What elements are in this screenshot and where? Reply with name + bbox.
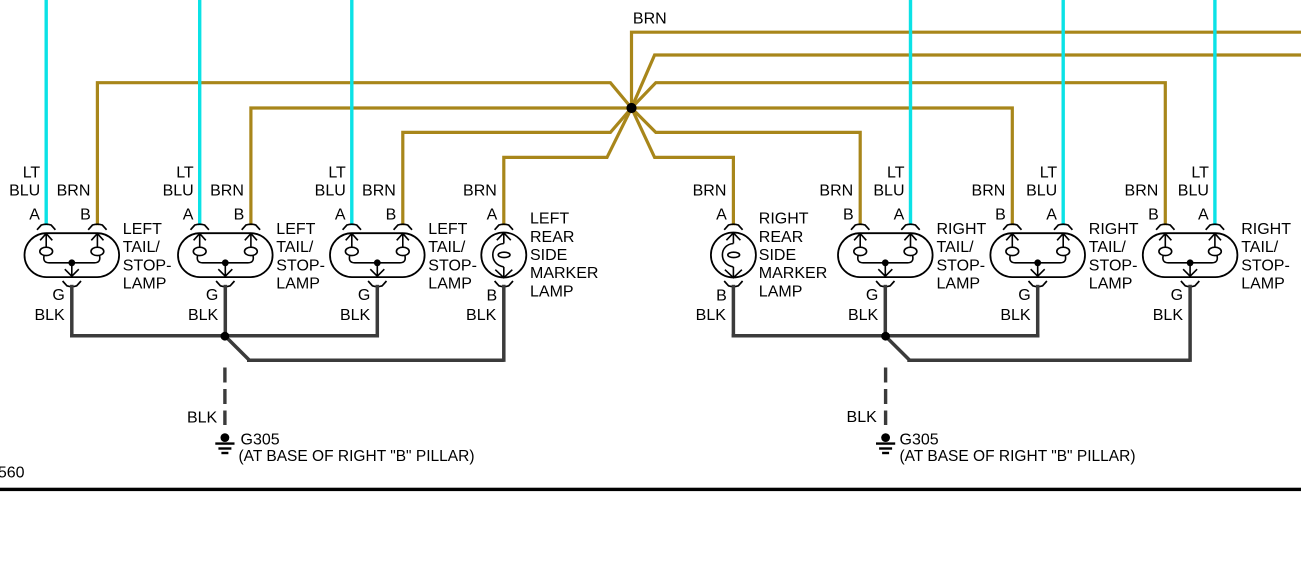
wire BLK from pin G of left tail lamp 3 <box>376 285 380 338</box>
label block right tail/stop lamp 1 <box>937 221 987 292</box>
dashed BLK wire to ground G305 right <box>884 368 887 426</box>
label block right tail/stop lamp 2 <box>1089 221 1139 292</box>
svg-text:BLK: BLK <box>187 410 218 427</box>
svg-text:BRN: BRN <box>819 183 853 200</box>
svg-text:BRN: BRN <box>362 183 396 200</box>
svg-text:REAR: REAR <box>530 229 574 246</box>
wire LT BLU vertical #4 <box>909 0 912 225</box>
separator rule at page bottom <box>0 488 1301 491</box>
splice junction node of BRN wires <box>626 103 636 113</box>
svg-text:BLU: BLU <box>1178 183 1209 200</box>
wire BRN to pin A of right rear side marker lamp <box>632 108 734 225</box>
label block right rear side marker lamp <box>759 211 827 301</box>
wire BRN to pin B of right tail lamp #2 <box>632 108 1013 225</box>
wire BLK from pin B of left rear side marker lamp <box>502 285 506 362</box>
wire BLK ground bus left <box>70 334 379 338</box>
svg-text:BRN: BRN <box>1125 183 1159 200</box>
svg-text:B: B <box>234 206 245 223</box>
svg-text:(AT BASE OF RIGHT "B" PILLAR): (AT BASE OF RIGHT "B" PILLAR) <box>900 448 1136 465</box>
svg-text:BLK: BLK <box>34 307 65 324</box>
bulb filament inside right rear side marker lamp <box>722 233 742 278</box>
label block left tail/stop lamp 3 <box>428 221 477 292</box>
svg-text:BLK: BLK <box>848 307 879 324</box>
svg-text:LT: LT <box>887 164 905 181</box>
svg-text:LT: LT <box>1040 164 1058 181</box>
svg-text:RIGHT: RIGHT <box>937 221 987 238</box>
svg-text:G305: G305 <box>241 431 280 448</box>
svg-text:G: G <box>206 287 218 304</box>
svg-text:BLK: BLK <box>696 307 727 324</box>
wire color label LT BLU at pin A of right tail/stop lamp 2 <box>1026 164 1057 199</box>
svg-text:BLU: BLU <box>9 183 40 200</box>
svg-text:G: G <box>1018 287 1030 304</box>
connector shell right tail/stop lamp 1 <box>838 224 933 286</box>
svg-text:RIGHT: RIGHT <box>759 211 809 228</box>
svg-text:A: A <box>1046 206 1057 223</box>
wire color label LT BLU at pin A of right tail/stop lamp 1 <box>873 164 904 199</box>
svg-text:TAIL/: TAIL/ <box>937 239 975 256</box>
bulb filaments inside right tail/stop lamp 1 <box>854 233 917 276</box>
wire BLK from pin G of right tail lamp 2 <box>1036 285 1040 338</box>
wire BRN to pin A of left rear side marker lamp <box>504 108 632 225</box>
svg-text:BLK: BLK <box>1153 307 1184 324</box>
connector shell right rear side marker lamp <box>711 224 756 286</box>
wire BLK from pin G of right tail lamp 3 <box>1188 285 1192 362</box>
svg-text:B: B <box>1148 206 1159 223</box>
svg-text:A: A <box>894 206 905 223</box>
svg-text:TAIL/: TAIL/ <box>123 239 161 256</box>
svg-text:LEFT: LEFT <box>428 221 467 238</box>
svg-text:A: A <box>1198 206 1209 223</box>
svg-text:BRN: BRN <box>972 183 1006 200</box>
bulb filaments inside right tail/stop lamp 2 <box>1006 233 1070 276</box>
splice node on left ground bus <box>221 332 230 341</box>
wire color label LT BLU at pin A of left tail/stop lamp 1 <box>9 164 40 199</box>
connector shell left rear side marker lamp <box>481 224 526 286</box>
svg-text:TAIL/: TAIL/ <box>1089 239 1127 256</box>
ground symbol G305 left <box>215 433 234 453</box>
svg-text:TAIL/: TAIL/ <box>428 239 466 256</box>
svg-text:B: B <box>386 206 397 223</box>
svg-text:RIGHT: RIGHT <box>1089 221 1139 238</box>
svg-text:LT: LT <box>328 164 346 181</box>
label block left rear side marker lamp <box>530 211 598 301</box>
svg-text:B: B <box>716 287 727 304</box>
label block left tail/stop lamp 1 <box>123 221 172 292</box>
wire BLK from pin B of right rear side marker lamp <box>732 285 736 338</box>
label block right tail/stop lamp 3 <box>1241 221 1291 292</box>
svg-text:BLK: BLK <box>1000 307 1031 324</box>
connector shell left tail/stop lamp 2 <box>178 224 273 286</box>
wire BLK from pin G of left tail lamp 2 <box>224 285 228 336</box>
label block left tail/stop lamp 2 <box>276 221 325 292</box>
bulb filaments inside left tail/stop lamp 2 <box>193 233 257 276</box>
wire BRN to pin B of right tail lamp #3 <box>632 83 1166 226</box>
bulb filaments inside right tail/stop lamp 3 <box>1159 233 1221 276</box>
svg-text:G: G <box>1171 287 1183 304</box>
svg-text:BRN: BRN <box>210 183 244 200</box>
svg-text:A: A <box>716 206 727 223</box>
wire LT BLU vertical #2 <box>198 0 201 225</box>
wire BLK diagonal from right splice <box>886 336 910 360</box>
wire LT BLU vertical #6 <box>1213 0 1216 225</box>
svg-text:MARKER: MARKER <box>759 265 827 282</box>
svg-text:A: A <box>335 206 346 223</box>
wire BLK diagonal from left splice <box>225 336 249 360</box>
svg-text:BLK: BLK <box>847 409 878 426</box>
ground symbol G305 right <box>876 433 895 453</box>
wire BRN to pin B of left tail lamp #3 <box>403 108 632 225</box>
connector shell left tail/stop lamp 1 <box>25 224 120 286</box>
svg-text:BLK: BLK <box>188 307 219 324</box>
svg-text:560: 560 <box>0 465 25 482</box>
svg-text:(AT BASE OF RIGHT "B" PILLAR): (AT BASE OF RIGHT "B" PILLAR) <box>239 448 475 465</box>
wire LT BLU vertical #3 <box>350 0 353 225</box>
svg-text:BLK: BLK <box>466 307 497 324</box>
svg-text:B: B <box>486 287 497 304</box>
wire color label LT BLU at pin A of left tail/stop lamp 2 <box>163 164 194 199</box>
svg-text:LAMP: LAMP <box>759 283 803 300</box>
svg-text:REAR: REAR <box>759 229 803 246</box>
svg-text:G: G <box>52 287 64 304</box>
svg-text:LAMP: LAMP <box>1241 275 1285 292</box>
svg-text:LAMP: LAMP <box>530 283 574 300</box>
svg-text:BLU: BLU <box>873 183 904 200</box>
svg-text:SIDE: SIDE <box>530 247 567 264</box>
svg-text:SIDE: SIDE <box>759 247 796 264</box>
svg-text:LT: LT <box>1191 164 1209 181</box>
svg-text:LAMP: LAMP <box>123 275 167 292</box>
svg-text:STOP-: STOP- <box>1241 257 1290 274</box>
wire BLK ground bus right <box>732 334 1040 338</box>
svg-text:LAMP: LAMP <box>937 275 981 292</box>
bulb filament inside left rear side marker lamp <box>493 233 513 278</box>
svg-text:STOP-: STOP- <box>428 257 477 274</box>
svg-text:B: B <box>995 206 1006 223</box>
svg-text:BRN: BRN <box>633 11 667 28</box>
svg-text:LEFT: LEFT <box>276 221 315 238</box>
svg-text:STOP-: STOP- <box>123 257 172 274</box>
svg-text:LT: LT <box>23 164 41 181</box>
bulb filaments inside left tail/stop lamp 1 <box>40 233 104 276</box>
svg-text:BRN: BRN <box>463 183 497 200</box>
dashed BLK wire to ground G305 left <box>223 368 226 426</box>
wire BRN to pin B of left tail lamp #2 <box>251 108 632 225</box>
svg-text:STOP-: STOP- <box>276 257 325 274</box>
svg-text:TAIL/: TAIL/ <box>276 239 314 256</box>
wire LT BLU vertical #1 <box>45 0 48 225</box>
svg-text:LAMP: LAMP <box>428 275 472 292</box>
svg-text:B: B <box>80 206 91 223</box>
wire LT BLU vertical #5 <box>1061 0 1064 225</box>
wire BLK lower bus left <box>247 358 504 362</box>
svg-text:A: A <box>29 206 40 223</box>
svg-text:G: G <box>866 287 878 304</box>
svg-text:A: A <box>487 206 498 223</box>
wire BLK lower bus right <box>907 358 1190 362</box>
svg-text:STOP-: STOP- <box>937 257 986 274</box>
splice node on right ground bus <box>881 332 890 341</box>
connector shell right tail/stop lamp 3 <box>1143 224 1238 286</box>
svg-text:LEFT: LEFT <box>530 211 569 228</box>
svg-text:G305: G305 <box>900 431 939 448</box>
svg-text:MARKER: MARKER <box>530 265 598 282</box>
svg-text:STOP-: STOP- <box>1089 257 1138 274</box>
svg-text:G: G <box>358 287 370 304</box>
wire BRN to pin B of right tail lamp #1 <box>632 108 861 225</box>
svg-text:BRN: BRN <box>693 183 727 200</box>
svg-text:BRN: BRN <box>57 183 91 200</box>
wire BLK from pin G of right tail lamp 1 <box>884 285 888 336</box>
svg-text:LEFT: LEFT <box>123 221 162 238</box>
svg-text:LAMP: LAMP <box>276 275 320 292</box>
connector shell left tail/stop lamp 3 <box>330 224 425 286</box>
wire BRN feed: splice S408 up and right to page edge <box>632 32 1301 110</box>
svg-text:LT: LT <box>176 164 194 181</box>
connector shell right tail/stop lamp 2 <box>990 224 1085 286</box>
wire BRN second feed right to page edge <box>632 55 1301 108</box>
svg-text:LAMP: LAMP <box>1089 275 1133 292</box>
wire color label LT BLU at pin A of left tail/stop lamp 3 <box>315 164 346 199</box>
wire color label LT BLU at pin A of right tail/stop lamp 3 <box>1178 164 1209 199</box>
svg-text:B: B <box>843 206 854 223</box>
wire BLK from pin G of left tail lamp 1 <box>70 285 74 338</box>
wire BRN to pin B of left tail lamp #1 <box>97 83 631 226</box>
svg-text:BLU: BLU <box>315 183 346 200</box>
svg-text:BLU: BLU <box>1026 183 1057 200</box>
svg-text:RIGHT: RIGHT <box>1241 221 1291 238</box>
svg-text:BLU: BLU <box>163 183 194 200</box>
svg-text:BLK: BLK <box>340 307 371 324</box>
svg-text:TAIL/: TAIL/ <box>1241 239 1279 256</box>
svg-text:A: A <box>183 206 194 223</box>
bulb filaments inside left tail/stop lamp 3 <box>345 233 409 276</box>
